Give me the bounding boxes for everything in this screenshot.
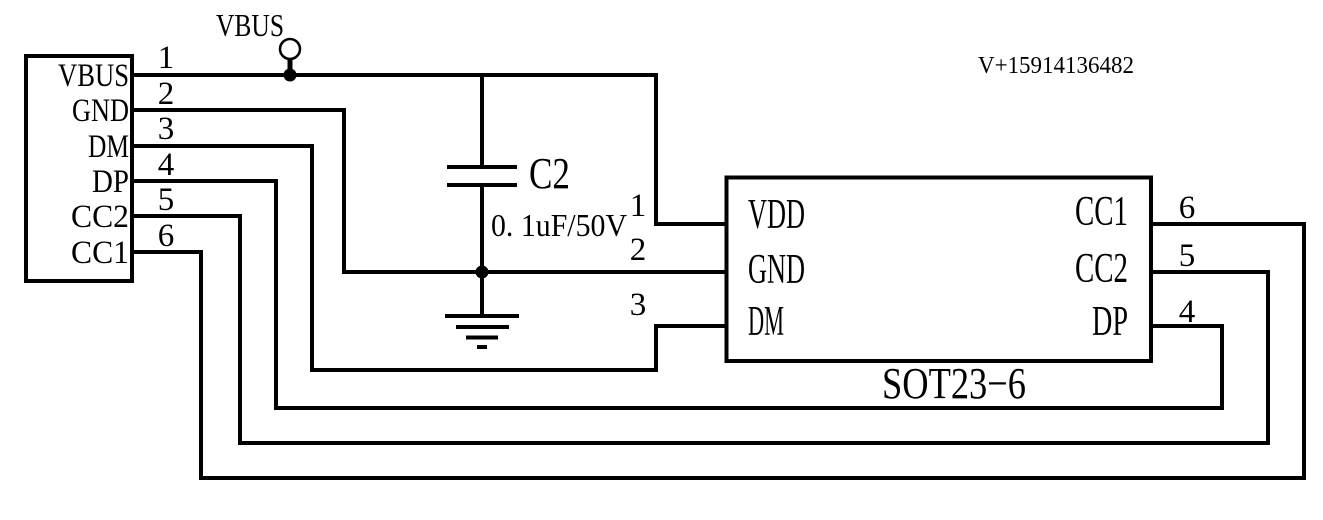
svg-text:GND: GND bbox=[748, 247, 805, 293]
svg-text:DP: DP bbox=[1092, 299, 1128, 345]
svg-text:DP: DP bbox=[92, 164, 129, 200]
svg-text:0. 1uF/50V: 0. 1uF/50V bbox=[491, 207, 627, 243]
VBUS port stub wire bbox=[288, 59, 293, 75]
svg-text:DM: DM bbox=[88, 129, 129, 165]
capacitor C2 top plate bbox=[447, 165, 517, 169]
svg-text:VBUS: VBUS bbox=[216, 7, 284, 43]
svg-text:C2: C2 bbox=[529, 149, 570, 198]
wire DM net: connector pin3 to IC DM bbox=[132, 146, 727, 370]
ground symbol bar 3 bbox=[466, 336, 498, 340]
svg-text:1: 1 bbox=[158, 40, 175, 76]
ground stub wire bbox=[480, 272, 484, 316]
capacitor C2 vertical wire top bbox=[480, 75, 484, 165]
wire DP net: connector pin4 to IC DP bbox=[132, 181, 1222, 408]
svg-text:CC1: CC1 bbox=[71, 235, 129, 271]
VBUS net port circle bbox=[280, 39, 300, 59]
svg-text:GND: GND bbox=[72, 93, 129, 129]
svg-text:CC1: CC1 bbox=[1075, 189, 1128, 235]
ground symbol bar 4 bbox=[477, 345, 487, 349]
svg-text:2: 2 bbox=[630, 232, 647, 268]
capacitor C2 bottom plate bbox=[447, 183, 517, 187]
ground symbol bar 2 bbox=[456, 325, 509, 329]
svg-text:CC2: CC2 bbox=[1075, 246, 1128, 292]
svg-text:6: 6 bbox=[1179, 190, 1196, 226]
svg-text:6: 6 bbox=[158, 218, 175, 254]
svg-text:2: 2 bbox=[158, 76, 175, 112]
svg-text:5: 5 bbox=[1179, 238, 1196, 274]
connector J1 box bbox=[26, 56, 132, 281]
svg-text:1: 1 bbox=[630, 188, 647, 224]
svg-text:VDD: VDD bbox=[748, 192, 805, 238]
svg-text:4: 4 bbox=[158, 147, 175, 183]
svg-text:DM: DM bbox=[748, 299, 784, 345]
ground symbol bar 1 bbox=[445, 314, 519, 318]
wire CC1 net: connector pin6 to IC CC1 bbox=[132, 224, 1304, 478]
svg-text:3: 3 bbox=[630, 287, 647, 323]
svg-text:CC2: CC2 bbox=[71, 199, 129, 235]
svg-text:SOT23−6: SOT23−6 bbox=[882, 359, 1026, 408]
svg-text:5: 5 bbox=[158, 182, 175, 218]
IC U1 box SOT23-6 bbox=[727, 178, 1152, 362]
junction dot at C2 / GND wire bbox=[476, 266, 489, 279]
junction dot at VBUS port bbox=[284, 69, 297, 82]
wire GND net: connector pin2 down and across to IC GND bbox=[132, 110, 727, 272]
svg-text:VBUS: VBUS bbox=[58, 58, 129, 94]
svg-text:4: 4 bbox=[1179, 294, 1196, 330]
svg-text:3: 3 bbox=[158, 111, 175, 147]
capacitor C2 vertical wire bottom bbox=[480, 187, 484, 272]
svg-text:V+15914136482: V+15914136482 bbox=[978, 53, 1134, 79]
wire VBUS net: connector pin1 to IC VDD bbox=[132, 75, 727, 224]
wire CC2 net: connector pin5 to IC CC2 bbox=[132, 216, 1268, 443]
